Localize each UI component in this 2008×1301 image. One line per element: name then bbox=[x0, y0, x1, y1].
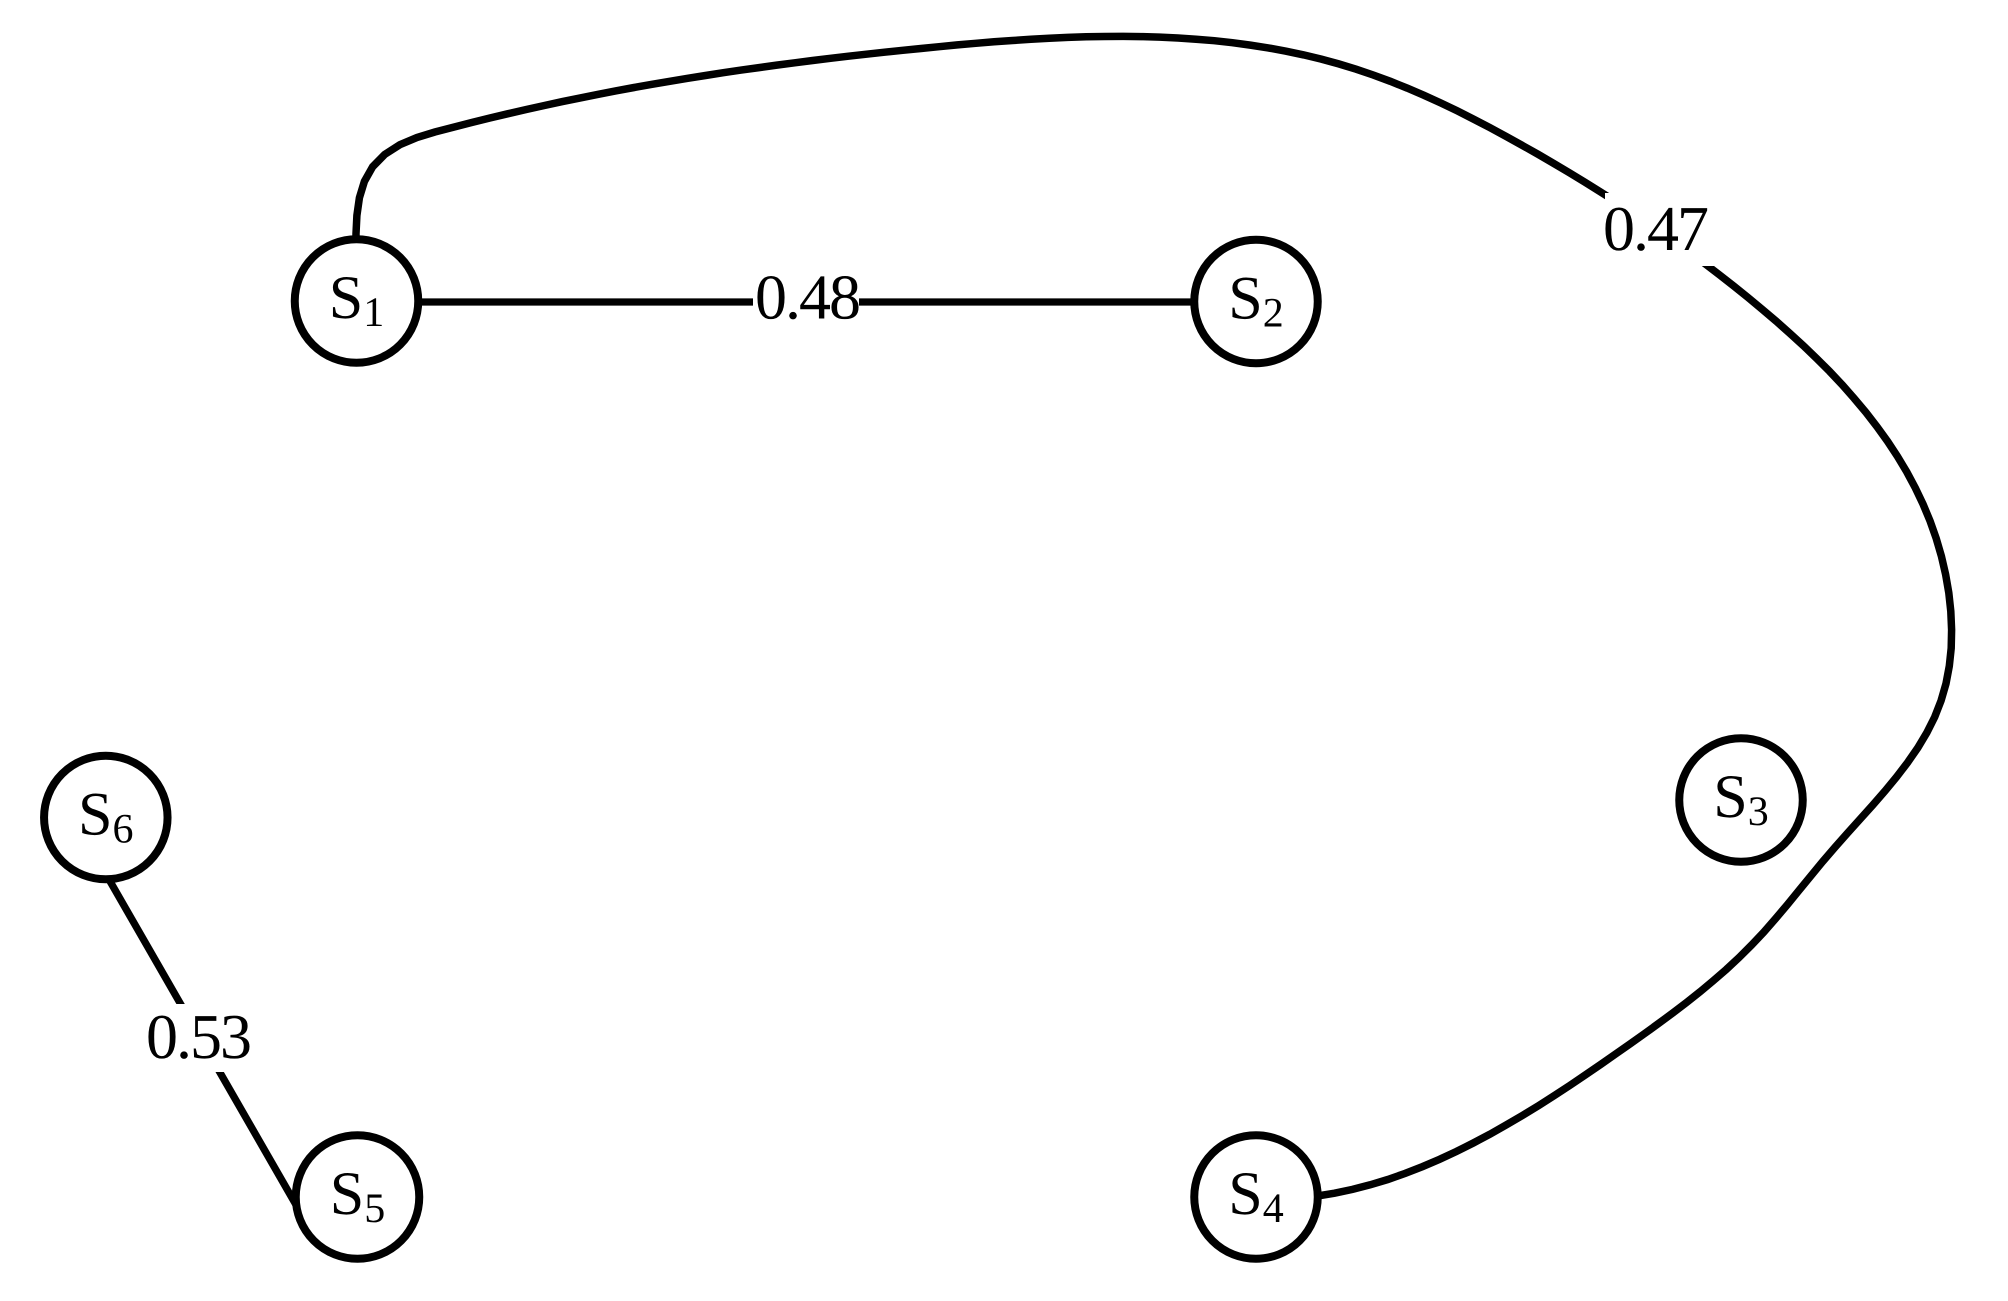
node S6 bbox=[44, 756, 168, 880]
wire edge S1-S2 bbox=[400, 298, 1215, 305]
svg-text:0.48: 0.48 bbox=[755, 262, 859, 333]
node S3 bbox=[1679, 738, 1803, 862]
node S2 bbox=[1194, 240, 1318, 364]
node S5 bbox=[296, 1135, 420, 1259]
node S1 bbox=[295, 239, 419, 363]
wire edge S6-S5 bbox=[107, 876, 299, 1210]
edge label 0.53 bbox=[140, 1001, 256, 1072]
node S4 bbox=[1194, 1135, 1318, 1259]
wire edge S1-S4 big curve bbox=[356, 36, 1952, 1199]
svg-text:0.47: 0.47 bbox=[1603, 193, 1708, 264]
edge label 0.47 bbox=[1603, 193, 1720, 266]
svg-text:0.53: 0.53 bbox=[146, 1001, 250, 1072]
edge label 0.48 bbox=[753, 262, 859, 333]
